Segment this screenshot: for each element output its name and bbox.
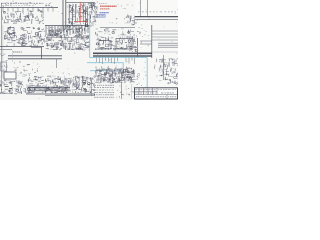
- connector CN201 cluster: [88, 2, 98, 21]
- small parts under blue note: [112, 17, 135, 25]
- title block grid: [135, 88, 178, 99]
- cluster mid lower-left: [13, 62, 38, 77]
- wire: left inner vertical: [2, 25, 4, 78]
- wire: drops from top-left bus: [3, 8, 53, 12]
- wire: comb top bus: [45, 25, 90, 27]
- power bus dark upper: [93, 52, 152, 54]
- wire: vertical bus B: [65, 0, 67, 29]
- text row 4: [94, 94, 114, 96]
- title text: [135, 92, 156, 94]
- title block frame: [135, 88, 178, 99]
- title text: [161, 92, 174, 94]
- wire: right bus lower: [135, 19, 178, 21]
- wire: long bottom bus: [26, 93, 95, 95]
- component cluster (top-left mid): [11, 14, 30, 21]
- wire: cyan vertical right: [146, 58, 148, 88]
- deflection parts right: [155, 59, 178, 85]
- wire: cyan vertical main: [89, 13, 91, 58]
- wire: red trace horizontal: [74, 21, 88, 23]
- wire: vertical x91: [90, 78, 92, 96]
- cluster near x130: [127, 15, 136, 26]
- top-left text row 2: [2, 4, 30, 6]
- marks x60-68 y72-78: [58, 72, 70, 77]
- wire: right dark bus upper: [135, 16, 178, 18]
- faint top notes: [118, 4, 134, 9]
- tick row right top: [138, 11, 176, 13]
- text row 0: [94, 84, 114, 86]
- dense core transformer T301: [47, 27, 60, 36]
- wire: long bottom bus 2: [45, 95, 95, 97]
- wire: vertical x12: [12, 50, 14, 62]
- wire: mid double bus upper: [8, 55, 62, 57]
- relay RY301 cluster: [4, 26, 18, 40]
- wire: short top-left stub: [0, 49, 12, 51]
- component body X501: [1, 62, 7, 71]
- blue callout box: [98, 14, 106, 17]
- logic block U401: [95, 29, 135, 51]
- wire: vertical right 1: [140, 0, 142, 17]
- wire: cyan horizontal main: [90, 57, 148, 59]
- white box (label area): [4, 72, 16, 79]
- title text: [158, 89, 176, 91]
- glyphs near x14 y52: [13, 51, 22, 53]
- resistor pack RP601: [96, 71, 100, 77]
- wire: vertical drops bottom-middle: [97, 58, 135, 65]
- transistor Q201 cluster: [63, 24, 82, 30]
- title text: [136, 96, 166, 98]
- gray note above red text: [99, 3, 107, 5]
- wire: vertical x163: [163, 55, 165, 80]
- wire: band thin continuation: [152, 51, 178, 53]
- text row 3: [94, 91, 114, 93]
- blue annotation text line 2: [99, 15, 105, 17]
- sparse marks right-bottom: [137, 70, 146, 86]
- IC U402 body: [99, 41, 111, 50]
- audio section mid: [26, 76, 49, 94]
- wire: horizontal link top: [66, 2, 95, 4]
- top-left text row 1: [1, 2, 44, 4]
- wire: vertical x151: [151, 25, 153, 58]
- wire: comb bus bottom 2: [28, 90, 70, 92]
- wire: left mid horizontal bus: [0, 46, 44, 48]
- component body X301: [8, 28, 14, 34]
- red annotation text line 1: [100, 5, 117, 7]
- component cluster (top-left RC network): [1, 10, 44, 24]
- power bus dark lower: [93, 55, 152, 57]
- capacitor C205 (circle): [91, 3, 94, 6]
- regulator block left: [0, 53, 8, 77]
- wire: cyan horizontal second: [87, 62, 123, 64]
- wire: comb bus bottom: [28, 86, 70, 88]
- connector pin comb bottom: [29, 87, 69, 91]
- wire: long verticals U201: [69, 3, 85, 26]
- wire: top-left horizontal bus: [0, 7, 58, 9]
- small caps row: [7, 40, 36, 46]
- wire: vertical x121 long: [121, 82, 123, 99]
- cluster right of text: [117, 85, 135, 98]
- wire: vertical below bus: [56, 59, 58, 68]
- wire: vertical x137: [137, 38, 139, 57]
- blue annotation text line 1: [100, 12, 110, 14]
- wire: vertical right 2: [147, 0, 149, 17]
- wire: red trace 1 (vertical): [75, 4, 77, 22]
- cluster left of band end: [128, 40, 137, 52]
- red annotation text line 2: [100, 8, 110, 10]
- title text: [168, 96, 176, 98]
- IC U201 area circuitry: [68, 3, 97, 27]
- wire: cyan horizontal lower: [90, 70, 123, 72]
- wire: hline y44: [140, 43, 152, 45]
- wire: tick above bus: [31, 46, 42, 48]
- wire: left border vertical: [0, 3, 2, 90]
- deflection inner cluster: [159, 58, 176, 73]
- wire: vertical bus A: [62, 0, 64, 29]
- wire: cyan vertical elbow: [122, 63, 124, 71]
- sparse joins right-mid: [137, 28, 153, 49]
- connector pin comb: [46, 26, 88, 36]
- resistor pack RP602: [109, 71, 113, 76]
- text row 5: [94, 96, 114, 98]
- IC U301 pin field: [45, 28, 90, 50]
- text row 2: [94, 89, 113, 91]
- IC U403 body: [116, 39, 132, 50]
- wire: red trace 2 (vertical): [79, 2, 81, 22]
- wire: hline y41: [140, 40, 152, 42]
- bottom dense band: [45, 76, 95, 93]
- wire: vertical into bus: [41, 47, 43, 59]
- label text row (top-left): [2, 2, 50, 6]
- text row 1: [94, 87, 114, 89]
- wire: mid hline comb region: [46, 37, 89, 39]
- video amp inner wall: [98, 68, 131, 81]
- small label 17.2: [68, 48, 78, 50]
- diode bridge D301-D304: [18, 27, 45, 47]
- wire: right bus lines: [152, 31, 178, 40]
- wire: red trace 3 (vertical): [87, 6, 89, 26]
- capacitor C206 (circle): [94, 7, 97, 10]
- title text: [135, 89, 155, 91]
- wire: mid double bus lower: [8, 58, 62, 60]
- wire: right bus lines lower: [158, 43, 178, 47]
- glyphs x45-52 top: [46, 3, 52, 8]
- cluster x128 y72: [126, 71, 139, 80]
- wire: mid horizontal: [100, 27, 135, 29]
- small label row above band: [105, 47, 127, 49]
- background scan noise: [3, 1, 178, 99]
- wire: vertical x131 faint: [131, 84, 133, 99]
- audio section circuitry: [0, 80, 26, 94]
- video amp section: [95, 66, 135, 83]
